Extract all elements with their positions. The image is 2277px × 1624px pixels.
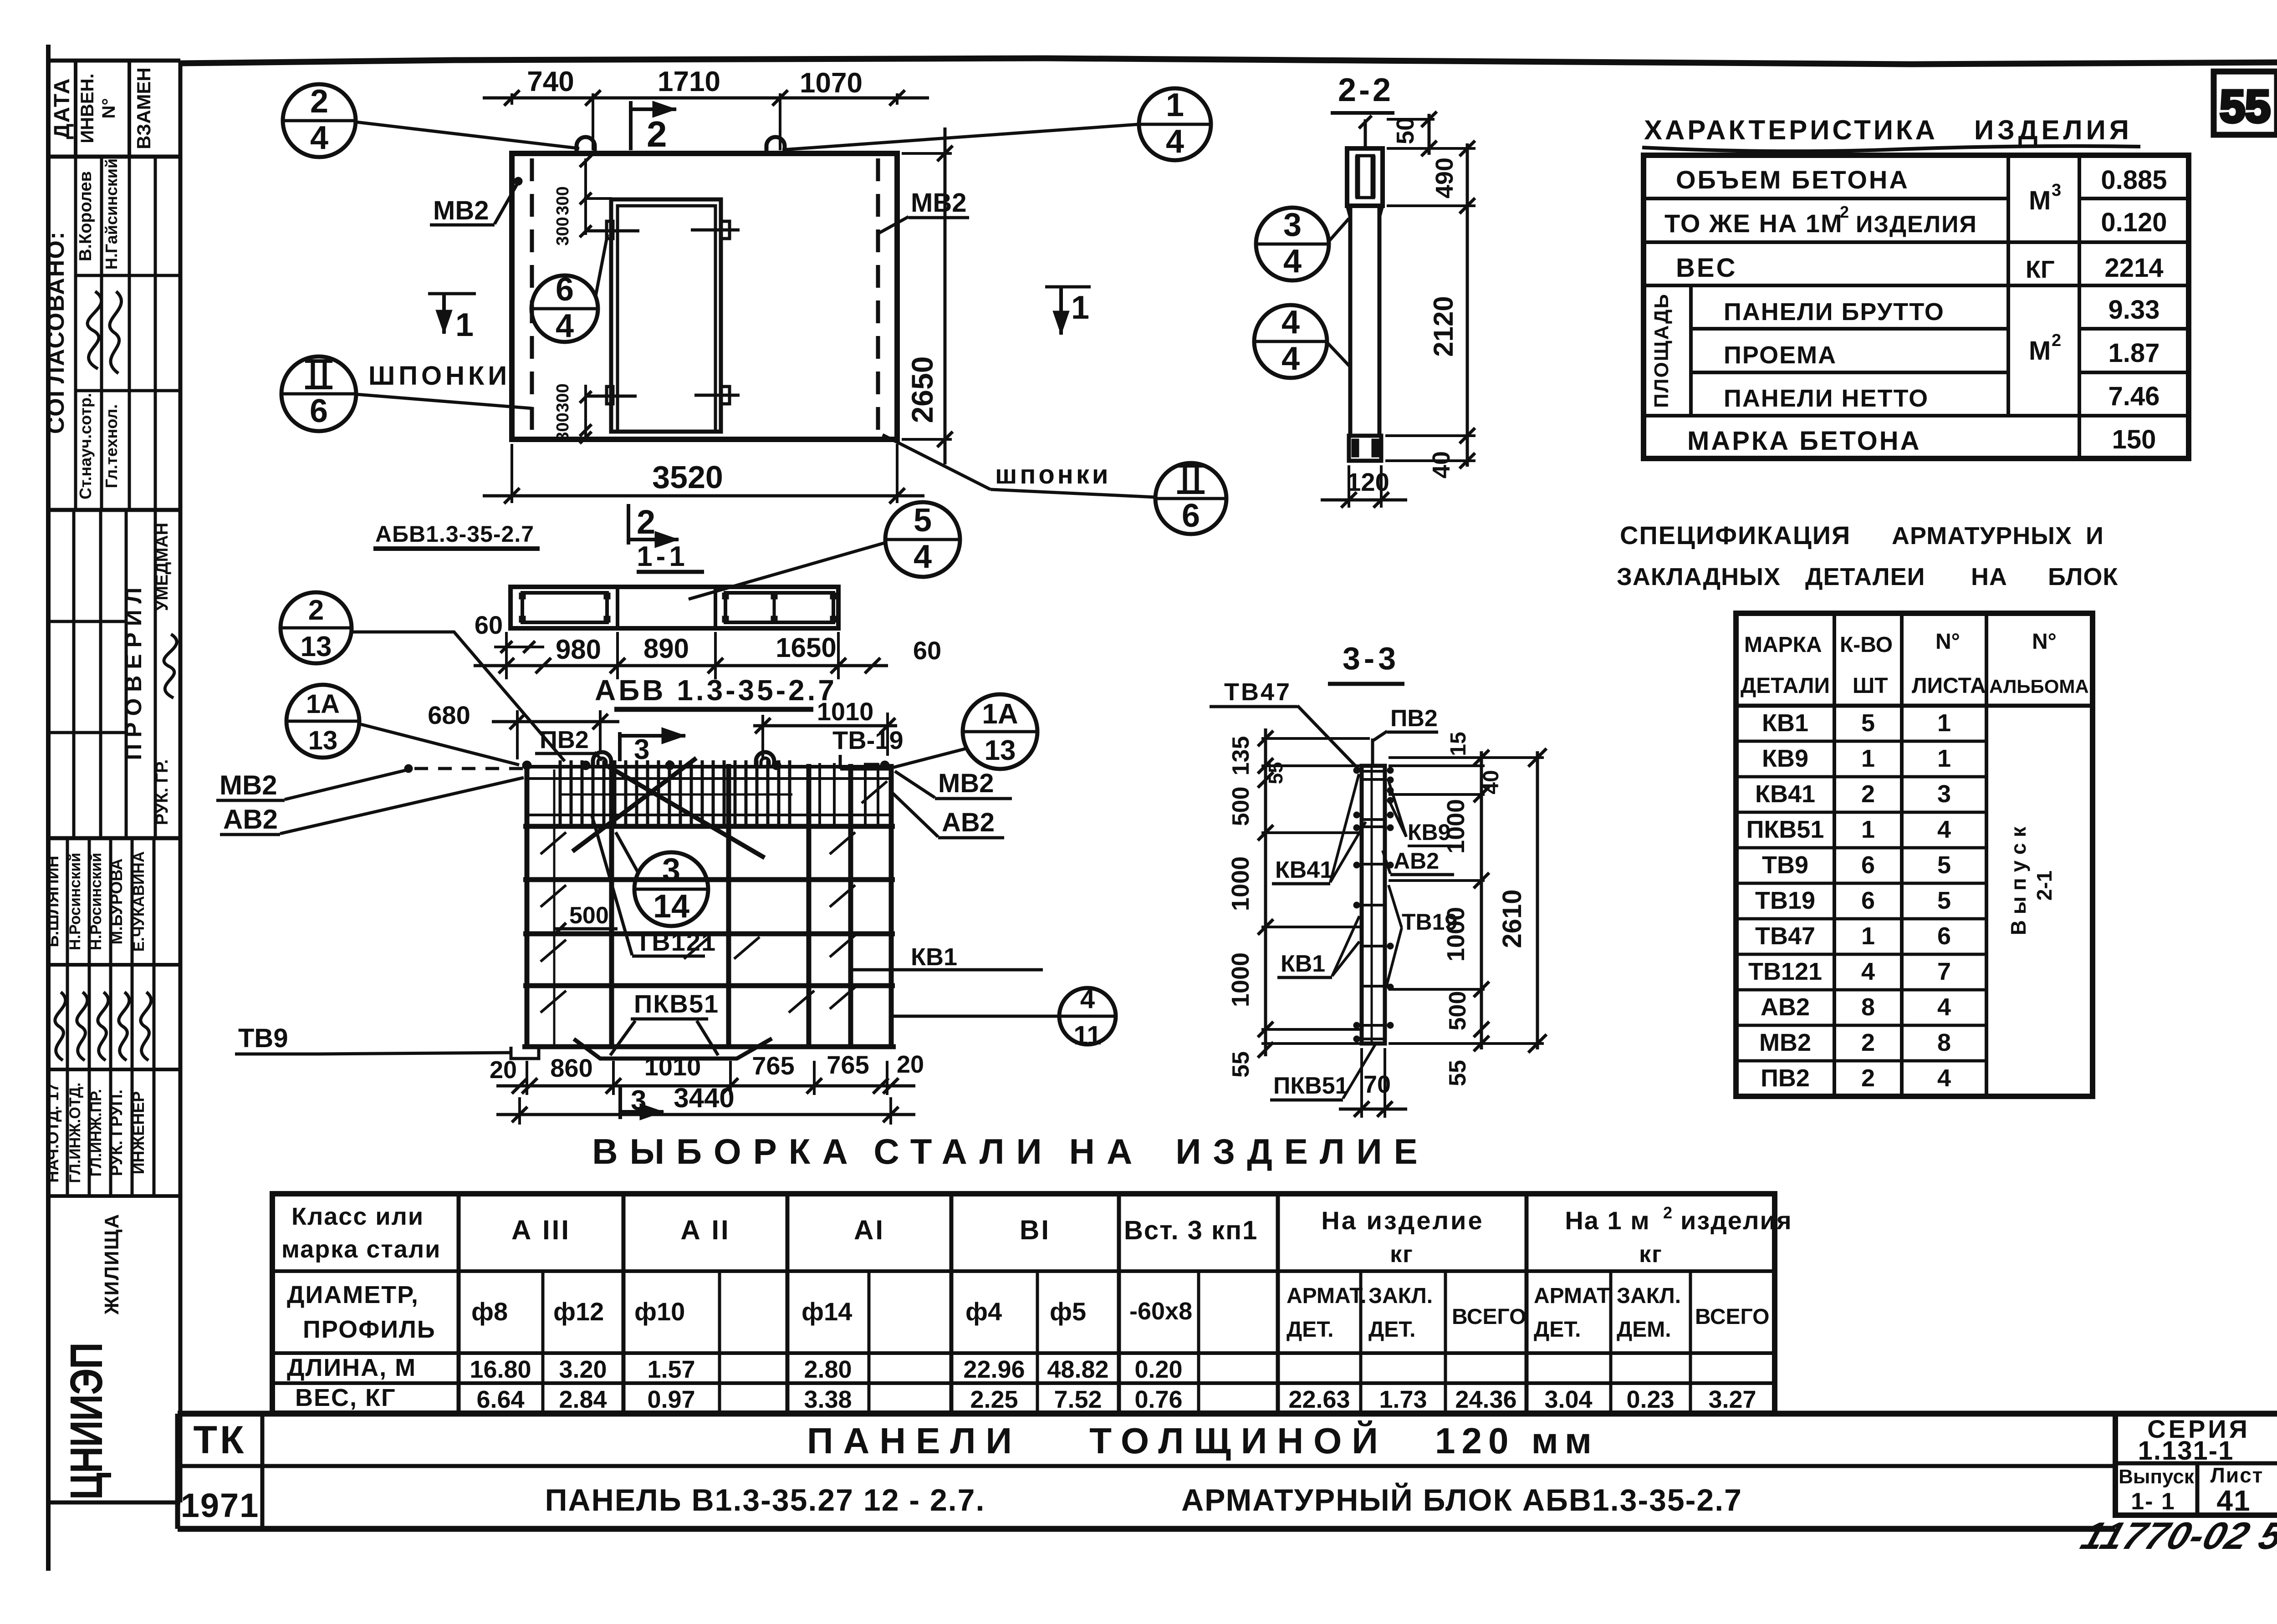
svg-text:1.73: 1.73: [1379, 1386, 1427, 1413]
svg-text:3.20: 3.20: [559, 1356, 607, 1383]
svg-text:ф8: ф8: [471, 1297, 508, 1326]
svg-text:765: 765: [827, 1050, 869, 1079]
svg-text:60: 60: [913, 636, 941, 665]
svg-text:2: 2: [1861, 1029, 1875, 1056]
svg-text:ШТ: ШТ: [1853, 674, 1888, 698]
svg-text:МВ2: МВ2: [220, 770, 277, 800]
svg-text:На 1 м: На 1 м: [1565, 1206, 1650, 1235]
svg-text:55: 55: [1228, 1051, 1254, 1078]
svg-text:4: 4: [1861, 958, 1875, 985]
svg-text:ПКВ51: ПКВ51: [634, 989, 719, 1018]
svg-text:УМЕДМАН: УМЕДМАН: [153, 523, 172, 611]
svg-text:890: 890: [643, 633, 689, 664]
svg-text:1: 1: [1071, 290, 1089, 326]
svg-text:изделия: изделия: [1680, 1206, 1792, 1235]
svg-text:500: 500: [1228, 787, 1254, 826]
svg-text:1971: 1971: [181, 1487, 260, 1524]
svg-text:4: 4: [310, 120, 328, 156]
svg-text:ИНЖЕНЕР: ИНЖЕНЕР: [129, 1091, 148, 1174]
svg-text:ДЕТ.: ДЕТ.: [1287, 1318, 1333, 1342]
svg-text:1А: 1А: [306, 689, 340, 719]
svg-text:150: 150: [2112, 425, 2156, 454]
svg-text:6.64: 6.64: [476, 1386, 524, 1413]
svg-text:0.120: 0.120: [2101, 208, 2167, 237]
svg-text:1- 1: 1- 1: [2131, 1488, 2175, 1515]
svg-text:ВСЕГО: ВСЕГО: [1695, 1305, 1769, 1329]
svg-text:ТВ-19: ТВ-19: [832, 726, 904, 754]
svg-text:2-1: 2-1: [2032, 871, 2056, 901]
svg-text:ШПОНКИ: ШПОНКИ: [368, 361, 511, 391]
svg-text:КВ41: КВ41: [1755, 780, 1815, 808]
svg-text:ПЛОЩАДЬ: ПЛОЩАДЬ: [1650, 293, 1673, 408]
svg-text:ф5: ф5: [1050, 1297, 1086, 1326]
svg-text:4: 4: [1281, 304, 1300, 341]
svg-text:АРМАТУРНЫХ: АРМАТУРНЫХ: [1892, 522, 2072, 550]
svg-text:135: 135: [1228, 736, 1254, 776]
svg-text:0.885: 0.885: [2101, 165, 2167, 195]
svg-text:Н.Росинский: Н.Росинский: [66, 853, 84, 950]
svg-text:4: 4: [1937, 1064, 1951, 1092]
svg-text:3.04: 3.04: [1544, 1386, 1592, 1413]
svg-text:Б.ШЛЯПИН: Б.ШЛЯПИН: [43, 856, 62, 947]
svg-text:ГЛ.ИНЖ.ПР.: ГЛ.ИНЖ.ПР.: [87, 1089, 105, 1176]
svg-text:ф14: ф14: [802, 1297, 852, 1326]
svg-text:КВ1: КВ1: [1762, 709, 1808, 737]
svg-text:РУК. ГР.: РУК. ГР.: [153, 759, 172, 825]
svg-text:15: 15: [1446, 732, 1470, 756]
svg-text:КГ: КГ: [2026, 256, 2055, 283]
svg-text:МАРКА: МАРКА: [1744, 633, 1822, 657]
svg-text:1-1: 1-1: [637, 541, 689, 572]
svg-text:ПВ2: ПВ2: [1761, 1064, 1810, 1092]
svg-text:ТОЛЩИНОЙ: ТОЛЩИНОЙ: [1089, 1420, 1388, 1461]
svg-text:ТО ЖЕ НА 1М: ТО ЖЕ НА 1М: [1664, 209, 1843, 238]
svg-text:3: 3: [2052, 181, 2061, 200]
svg-text:5: 5: [914, 502, 932, 539]
svg-text:1650: 1650: [776, 632, 836, 663]
svg-text:40: 40: [1428, 451, 1455, 479]
svg-text:8: 8: [1861, 993, 1875, 1021]
svg-text:8: 8: [1937, 1029, 1951, 1056]
svg-text:М: М: [2029, 186, 2051, 215]
svg-text:980: 980: [556, 634, 601, 665]
svg-text:120 мм: 120 мм: [1435, 1420, 1598, 1461]
svg-text:16.80: 16.80: [470, 1356, 531, 1383]
svg-text:6: 6: [1861, 887, 1875, 914]
svg-text:ТВ121: ТВ121: [635, 927, 716, 956]
svg-text:ВЕС: ВЕС: [1676, 253, 1737, 283]
svg-text:1.131-1: 1.131-1: [2138, 1436, 2234, 1466]
svg-text:4: 4: [556, 308, 574, 344]
svg-text:ТВ9: ТВ9: [1762, 851, 1808, 879]
svg-text:4: 4: [914, 539, 932, 575]
svg-text:МВ2: МВ2: [938, 769, 994, 798]
svg-text:11: 11: [1073, 1021, 1101, 1050]
svg-text:В ы п у с к: В ы п у с к: [2006, 826, 2030, 935]
svg-text:-60x8: -60x8: [1129, 1298, 1192, 1325]
svg-text:2214: 2214: [2104, 253, 2163, 283]
svg-text:4: 4: [1281, 341, 1300, 377]
svg-text:ПАНЕЛЬ В1.3-35.27 12 - 2.7.: ПАНЕЛЬ В1.3-35.27 12 - 2.7.: [545, 1483, 985, 1517]
svg-text:ПРОЕМА: ПРОЕМА: [1724, 341, 1837, 369]
svg-text:ТВ47: ТВ47: [1224, 678, 1292, 706]
svg-text:КВ9: КВ9: [1762, 745, 1808, 772]
svg-text:5: 5: [1861, 709, 1875, 737]
svg-text:марка стали: марка стали: [281, 1236, 441, 1263]
svg-text:11770-02 56: 11770-02 56: [2076, 1515, 2277, 1558]
svg-text:2120: 2120: [1428, 296, 1459, 356]
svg-text:2650: 2650: [905, 356, 939, 423]
svg-text:ЦНИИЭП: ЦНИИЭП: [61, 1343, 112, 1500]
svg-text:АВ2: АВ2: [223, 804, 278, 835]
svg-text:2610: 2610: [1497, 889, 1527, 948]
svg-text:АВ2: АВ2: [1761, 993, 1810, 1021]
svg-text:740: 740: [527, 66, 574, 97]
svg-text:2: 2: [637, 503, 655, 541]
svg-text:ОБЪЕМ БЕТОНА: ОБЪЕМ БЕТОНА: [1676, 165, 1909, 194]
svg-text:Ст.науч.сотр.: Ст.науч.сотр.: [76, 393, 95, 499]
svg-text:2.80: 2.80: [804, 1356, 852, 1383]
svg-text:ТВ121: ТВ121: [1748, 958, 1822, 985]
svg-text:1010: 1010: [817, 697, 874, 726]
svg-text:1000: 1000: [1442, 799, 1470, 854]
svg-text:6: 6: [556, 271, 574, 308]
svg-text:ДЕМ.: ДЕМ.: [1617, 1318, 1671, 1342]
svg-text:7: 7: [1937, 958, 1951, 985]
svg-text:АБВ1.3-35-2.7: АБВ1.3-35-2.7: [375, 521, 534, 547]
svg-text:490: 490: [1431, 158, 1458, 199]
svg-text:ТВ19: ТВ19: [1755, 887, 1815, 914]
svg-text:3520: 3520: [652, 459, 723, 495]
svg-text:ДЕТ.: ДЕТ.: [1534, 1318, 1581, 1342]
svg-text:МВ2: МВ2: [911, 188, 966, 218]
svg-text:Выпуск: Выпуск: [2119, 1466, 2195, 1488]
svg-text:ПКВ51: ПКВ51: [1746, 816, 1824, 843]
svg-text:14: 14: [653, 888, 689, 925]
svg-text:АI: АI: [854, 1215, 885, 1245]
svg-text:0.97: 0.97: [647, 1386, 695, 1413]
svg-text:13: 13: [985, 735, 1016, 766]
svg-text:КВ1: КВ1: [1281, 951, 1325, 977]
svg-text:3-3: 3-3: [1343, 641, 1399, 676]
svg-text:2: 2: [1861, 780, 1875, 808]
svg-text:50: 50: [1392, 117, 1419, 144]
svg-text:шпонки: шпонки: [995, 460, 1111, 489]
svg-text:2: 2: [1861, 1064, 1875, 1092]
svg-text:БЛОК: БЛОК: [2048, 563, 2118, 591]
svg-text:ВСЕГО: ВСЕГО: [1452, 1305, 1526, 1329]
svg-text:Гл.технол.: Гл.технол.: [102, 404, 121, 488]
svg-text:55: 55: [2220, 81, 2270, 132]
svg-text:ТВ9: ТВ9: [238, 1023, 288, 1053]
svg-text:1000: 1000: [1442, 907, 1470, 962]
svg-text:СПЕЦИФИКАЦИЯ: СПЕЦИФИКАЦИЯ: [1620, 521, 1851, 550]
svg-text:ЛИСТА: ЛИСТА: [1912, 674, 1986, 698]
svg-text:ВЕС, КГ: ВЕС, КГ: [295, 1384, 396, 1411]
svg-text:ПАНЕЛИ БРУТТО: ПАНЕЛИ БРУТТО: [1724, 298, 1945, 326]
svg-text:ф4: ф4: [965, 1297, 1002, 1326]
svg-text:П Р О В Е Р И Л: П Р О В Е Р И Л: [121, 587, 146, 760]
svg-text:Н.Гайсинский: Н.Гайсинский: [102, 158, 121, 270]
svg-text:2-2: 2-2: [1338, 72, 1394, 108]
svg-text:6: 6: [1861, 851, 1875, 879]
svg-text:МАРКА БЕТОНА: МАРКА БЕТОНА: [1687, 426, 1921, 456]
svg-text:4: 4: [1937, 816, 1951, 843]
svg-text:ТК: ТК: [193, 1418, 246, 1462]
svg-text:ДЕТАЛИ: ДЕТАЛИ: [1741, 674, 1830, 698]
svg-text:20: 20: [897, 1051, 924, 1078]
svg-text:НА: НА: [1971, 563, 2007, 591]
svg-text:3: 3: [631, 1085, 646, 1116]
svg-text:9.33: 9.33: [2109, 295, 2160, 325]
svg-text:Вст. 3 кп1: Вст. 3 кп1: [1124, 1216, 1258, 1245]
svg-text:М: М: [2029, 336, 2051, 366]
svg-text:24.36: 24.36: [1455, 1386, 1516, 1413]
svg-text:МВ2: МВ2: [433, 196, 489, 225]
svg-text:АЛЬБОМА: АЛЬБОМА: [1989, 676, 2089, 697]
svg-text:4: 4: [1080, 984, 1095, 1014]
svg-text:1.57: 1.57: [647, 1356, 695, 1383]
svg-text:А III: А III: [511, 1215, 571, 1245]
svg-text:1: 1: [1166, 87, 1184, 123]
svg-text:1000: 1000: [1227, 856, 1254, 911]
svg-text:А II: А II: [680, 1215, 730, 1245]
svg-text:М.БУРОВА: М.БУРОВА: [107, 858, 126, 944]
svg-text:1: 1: [455, 307, 474, 343]
svg-text:СОГЛАСОВАНО:: СОГЛАСОВАНО:: [43, 231, 69, 434]
svg-text:3440: 3440: [674, 1083, 734, 1113]
svg-text:6: 6: [310, 393, 328, 429]
svg-text:ИЗДЕЛИЯ: ИЗДЕЛИЯ: [1856, 211, 1977, 238]
svg-text:1: 1: [1861, 745, 1875, 772]
svg-text:4: 4: [1937, 993, 1951, 1021]
svg-text:2: 2: [308, 595, 324, 626]
svg-text:АВ2: АВ2: [1394, 848, 1439, 874]
svg-text:48.82: 48.82: [1047, 1356, 1108, 1383]
svg-text:ф12: ф12: [553, 1297, 604, 1326]
svg-text:ПВ2: ПВ2: [1390, 705, 1438, 732]
svg-text:Н.Росинский: Н.Росинский: [87, 853, 105, 950]
svg-text:И: И: [2086, 522, 2104, 550]
svg-text:1010: 1010: [644, 1052, 701, 1081]
svg-text:13: 13: [301, 631, 332, 662]
svg-text:3.27: 3.27: [1708, 1386, 1756, 1413]
svg-text:300: 300: [553, 186, 572, 215]
svg-text:ХАРАКТЕРИСТИКА: ХАРАКТЕРИСТИКА: [1644, 115, 1938, 145]
svg-text:0.76: 0.76: [1134, 1386, 1182, 1413]
svg-text:ВI: ВI: [1020, 1215, 1051, 1245]
svg-text:РУК. ГРУП.: РУК. ГРУП.: [107, 1089, 126, 1176]
svg-text:4: 4: [1283, 243, 1302, 280]
svg-text:1: 1: [1937, 709, 1951, 737]
svg-text:ТВ47: ТВ47: [1755, 922, 1815, 950]
svg-text:ПАНЕЛИ: ПАНЕЛИ: [807, 1420, 1022, 1461]
svg-text:АБВ 1.3-35-2.7: АБВ 1.3-35-2.7: [595, 674, 837, 707]
svg-text:55: 55: [1445, 1060, 1471, 1086]
svg-text:АРМАТ.: АРМАТ.: [1287, 1284, 1367, 1308]
svg-text:ИЗДЕЛИЕ: ИЗДЕЛИЕ: [1175, 1131, 1429, 1171]
svg-text:1710: 1710: [658, 66, 720, 97]
svg-text:ф10: ф10: [634, 1297, 685, 1326]
svg-text:ПРОФИЛЬ: ПРОФИЛЬ: [303, 1316, 436, 1343]
svg-text:НА: НА: [1069, 1131, 1144, 1171]
svg-text:Е.ЧУКАВИНА: Е.ЧУКАВИНА: [130, 851, 148, 952]
svg-text:2: 2: [1663, 1203, 1672, 1222]
svg-text:1А: 1А: [982, 698, 1018, 730]
svg-text:К-ВО: К-ВО: [1840, 633, 1893, 657]
svg-text:N°: N°: [1935, 630, 1960, 654]
svg-text:ВЫБОРКА: ВЫБОРКА: [592, 1131, 859, 1171]
svg-text:3.38: 3.38: [804, 1386, 852, 1413]
svg-text:3: 3: [1937, 780, 1951, 808]
svg-text:ДЛИНА, М: ДЛИНА, М: [287, 1354, 416, 1381]
svg-text:70: 70: [1363, 1071, 1391, 1098]
svg-text:3: 3: [1283, 207, 1302, 243]
svg-text:ГЛ.ИНЖ.ОТД.: ГЛ.ИНЖ.ОТД.: [66, 1083, 84, 1183]
svg-text:ЖИЛИЩА: ЖИЛИЩА: [101, 1213, 123, 1315]
svg-text:300: 300: [553, 412, 572, 441]
svg-text:МВ2: МВ2: [1759, 1029, 1811, 1056]
svg-text:7.46: 7.46: [2109, 382, 2160, 411]
svg-text:22.96: 22.96: [963, 1356, 1025, 1383]
svg-text:5: 5: [1937, 851, 1951, 879]
svg-text:2: 2: [1840, 203, 1849, 221]
svg-text:22.63: 22.63: [1288, 1386, 1350, 1413]
svg-text:В.Королев: В.Королев: [76, 171, 95, 261]
svg-text:ЗАКЛ.: ЗАКЛ.: [1368, 1284, 1433, 1308]
svg-text:ЗАКЛАДНЫХ: ЗАКЛАДНЫХ: [1617, 563, 1781, 591]
svg-text:2.84: 2.84: [559, 1386, 607, 1413]
svg-text:ИЗДЕЛИЯ: ИЗДЕЛИЯ: [1974, 115, 2133, 145]
svg-text:АРМАТ.: АРМАТ.: [1534, 1284, 1614, 1308]
svg-text:ПАНЕЛИ НЕТТО: ПАНЕЛИ НЕТТО: [1724, 385, 1929, 412]
svg-text:НАЧ.ОТД. 17: НАЧ.ОТД. 17: [43, 1083, 62, 1182]
svg-text:60: 60: [475, 611, 503, 639]
svg-text:ДЕТ.: ДЕТ.: [1368, 1318, 1415, 1342]
svg-text:1: 1: [1861, 922, 1875, 950]
svg-text:1: 1: [1861, 816, 1875, 843]
svg-text:5: 5: [1937, 887, 1951, 914]
svg-text:1.87: 1.87: [2109, 338, 2160, 368]
svg-text:1: 1: [1937, 745, 1951, 772]
svg-text:6: 6: [1937, 922, 1951, 950]
svg-text:ВЗАМЕН: ВЗАМЕН: [133, 67, 154, 149]
svg-text:ДИАМЕТР,: ДИАМЕТР,: [287, 1281, 419, 1308]
svg-text:0.20: 0.20: [1134, 1356, 1182, 1383]
svg-text:ИНВЕН.: ИНВЕН.: [77, 73, 97, 143]
svg-text:765: 765: [752, 1051, 794, 1080]
svg-text:500: 500: [1445, 991, 1471, 1031]
svg-text:3: 3: [662, 852, 680, 888]
svg-text:20: 20: [490, 1056, 517, 1084]
svg-text:ДЕТАЛЕИ: ДЕТАЛЕИ: [1805, 563, 1925, 591]
svg-text:7.52: 7.52: [1054, 1386, 1102, 1413]
svg-text:2: 2: [2052, 331, 2061, 350]
svg-text:КВ1: КВ1: [911, 943, 957, 971]
svg-text:ЗАКЛ.: ЗАКЛ.: [1617, 1284, 1681, 1308]
svg-text:КВ41: КВ41: [1275, 857, 1333, 883]
svg-text:0.23: 0.23: [1626, 1386, 1674, 1413]
svg-text:300: 300: [553, 383, 572, 412]
svg-text:Лист: Лист: [2211, 1463, 2264, 1487]
svg-text:кг: кг: [1390, 1241, 1414, 1268]
svg-text:2: 2: [310, 83, 328, 120]
svg-text:1070: 1070: [800, 67, 863, 99]
svg-text:2.25: 2.25: [970, 1386, 1018, 1413]
svg-text:6: 6: [1182, 498, 1200, 534]
svg-text:2: 2: [647, 114, 667, 154]
svg-text:N°: N°: [2032, 630, 2057, 654]
svg-text:СТАЛИ: СТАЛИ: [873, 1131, 1053, 1171]
svg-text:4: 4: [1166, 123, 1184, 160]
svg-text:41: 41: [2216, 1484, 2251, 1517]
svg-text:ПКВ51: ПКВ51: [1273, 1073, 1348, 1099]
svg-text:На изделие: На изделие: [1321, 1206, 1484, 1235]
svg-text:кг: кг: [1639, 1241, 1663, 1268]
svg-text:АВ2: АВ2: [942, 808, 995, 837]
svg-text:N°: N°: [99, 98, 119, 119]
svg-text:Класс или: Класс или: [291, 1203, 424, 1230]
svg-text:ДАТА: ДАТА: [50, 77, 74, 139]
svg-text:500: 500: [569, 902, 609, 929]
svg-text:13: 13: [308, 726, 338, 755]
svg-text:680: 680: [428, 701, 470, 729]
svg-text:3: 3: [634, 734, 649, 765]
svg-text:АРМАТУРНЫЙ БЛОК АБВ1.3-35-2.: АРМАТУРНЫЙ БЛОК АБВ1.3-35-2.7: [1181, 1482, 1742, 1517]
svg-text:1000: 1000: [1227, 952, 1254, 1007]
svg-text:860: 860: [550, 1054, 592, 1082]
svg-text:300: 300: [553, 217, 572, 245]
svg-text:40: 40: [1479, 770, 1503, 794]
svg-text:120: 120: [1347, 468, 1389, 496]
